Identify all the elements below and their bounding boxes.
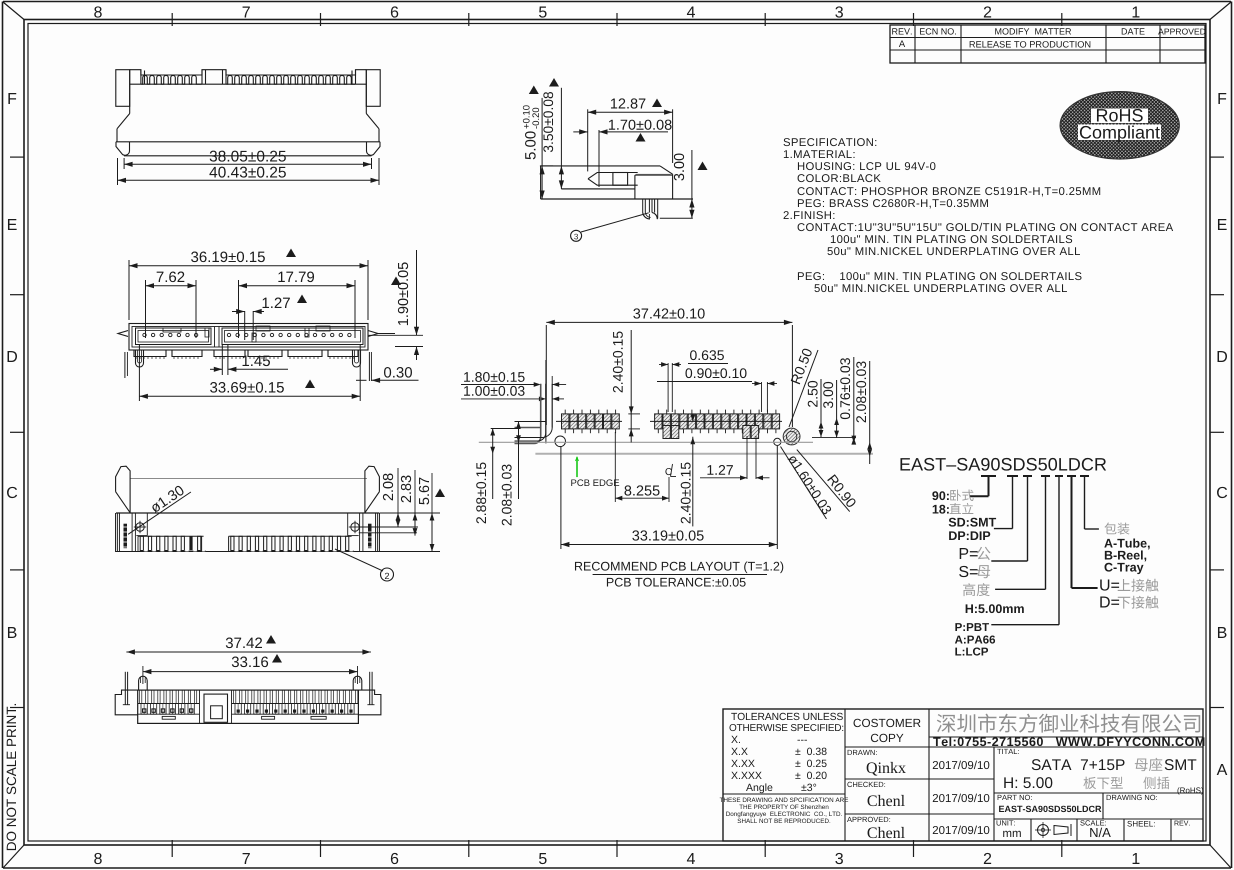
part no cell [998,795,1032,800]
rear view left end block stripes [117,513,119,552]
zone letters right [1218,93,1226,104]
projection symbol [1038,825,1049,836]
sheet outer edge [3,1,1231,3]
title block grid lines [844,709,846,841]
rear view body outline [116,513,380,552]
title cell [997,749,1019,754]
title block outer box [723,709,1203,841]
dimension 1.70±0.08 [598,130,600,187]
dimension 33.69±0.15 [138,344,140,401]
label DP DIP [949,531,990,540]
approved row [847,817,890,822]
front view comb base line [130,83,367,85]
label A-Tube [1104,538,1149,549]
label 90 horizontal [932,491,948,500]
dimension 5.00 +0.10/-0.20 [541,98,543,199]
front view bottom flange [116,141,380,143]
rear view right wing latch [365,466,380,513]
rev cell [1175,821,1190,826]
company tel line [933,737,1204,746]
top view teeth upper row left [140,690,142,703]
rear view right end block stripes [376,513,378,552]
label P male [960,548,978,559]
label 18 vertical [933,505,949,514]
top view outer legs [124,672,126,705]
rear view left peg target [146,513,148,536]
dimension 0.635 [667,363,669,412]
margin note DO NOT SCALE PRINT [7,704,17,850]
dimension 38.05±0.25 [123,158,125,169]
recommend pcb layout title [575,561,783,573]
rear view right peg target [347,513,349,536]
dimension 40.43±0.25 [117,158,119,185]
part number underline bars [981,475,996,477]
dimension 1.27 pcb [746,436,748,479]
rear view teeth gap [201,536,203,551]
dimension 1.27 pitch [244,311,246,340]
top view center key [204,694,228,722]
top view interior bands [138,703,200,705]
pcb pads staggered lower [663,426,670,439]
bottom view contact dots right [227,333,230,336]
rear view teeth right section [229,535,352,537]
drawn row [848,750,877,755]
rear view top lid face [130,478,367,480]
front view body outline [129,70,131,114]
zone numbers top [94,6,102,17]
pcb edge gray lines [479,441,813,443]
side view inner step [561,188,635,190]
label S female [959,566,977,577]
bottom view right cavity [222,328,363,345]
dimension 3.00 [691,199,693,218]
front view center key block [201,70,203,85]
dimension 0.30 [356,379,367,381]
revision table headers [892,28,911,34]
dimension 1.45 [221,344,223,375]
rear view left wing latch [116,466,131,513]
leader D [1071,476,1073,588]
label U upper contact [1100,579,1119,590]
side view body outline [541,165,660,167]
label A PA66 [955,635,995,643]
dimension 7.62 [145,280,147,338]
label height [963,583,990,596]
tolerances text [731,713,843,720]
scale cell [1080,820,1106,825]
leader L [1058,476,1060,625]
side view solder pins [642,199,644,213]
costomer copy cell [854,719,921,727]
label D lower contact [1100,596,1119,607]
front view left mounting ear [116,70,130,107]
top view teeth upper row right [234,690,236,703]
top view screw posts [139,676,148,690]
dimension 37.42 top view [126,651,371,653]
label packing [1104,523,1129,535]
leader R0.50 [789,350,818,427]
leader dim phi 1.30 [128,492,191,534]
pcb pads left group [562,414,569,429]
leader phi1.60 [781,447,827,520]
dimension 2.88±0.15 left [492,429,494,500]
checked row [847,782,885,787]
leader C [1084,476,1086,529]
leader circle 3 [581,213,649,232]
bottom view polarization marks [205,328,209,337]
bottom view side legs [124,352,126,378]
leader 90 [988,476,990,496]
dimension 12.87 [587,109,589,171]
bottom view left cavity [136,328,212,345]
bottom view contact dots left [143,333,146,336]
label P PBT [955,623,989,631]
pcb left vertical ext lines [545,360,547,443]
leader R0.90 [797,450,850,512]
bottom view right arrow mark [368,331,378,337]
zone letters left [8,93,16,104]
pcb right big hole hatched [783,428,800,445]
dimension 0.76±0.03 [853,357,855,443]
zone numbers bottom [94,853,102,864]
dimension 2.08±0.03 left [518,422,520,500]
dimension 2.50 [820,379,822,437]
company name [937,714,1200,733]
sheet corner bevels [3,2,24,20]
top view teeth lower blocks right [235,704,241,715]
zone ticks right [1210,156,1224,158]
front view top edge and comb teeth [130,70,367,75]
revision table grid [890,25,1205,63]
leader S [1027,476,1029,561]
label B-Reel [1105,550,1146,561]
dimension 2.40±0.15 lower [692,437,694,527]
bottom view outer body [129,324,368,351]
revision row A [899,40,905,47]
dimension 33.19±0.05 [560,446,562,549]
specification text block [784,138,877,146]
dimension 2.08±0.03 right [869,361,871,464]
pcb right hole [774,438,781,445]
bottom view cavity divider [214,327,216,348]
pcb left hole [555,436,566,447]
dimension 17.79 [238,280,240,338]
top view left bracket [115,690,138,715]
label C-Tray [1105,563,1144,574]
label L LCP [955,647,988,655]
dimension 1.00±0.03 [464,386,524,396]
dimension 37.42±0.10 pcb [545,325,547,425]
zone ticks left [10,156,24,158]
dimension 3.00 [836,380,838,438]
pcb edge label [571,479,619,486]
label H 5.00mm [966,604,1024,613]
part number EAST-SA90SDS50LDCR [900,458,1106,471]
bottom view solder tab row [134,350,166,357]
zone ticks bottom [171,840,173,857]
pcb edge green marker [576,457,578,477]
leader 50 [1045,476,1047,589]
top view teeth lower blocks left [141,704,147,715]
sheel cell [1127,821,1154,827]
centerline symbol [665,468,671,475]
top view right bracket [358,690,381,715]
dimension 1.90±0.05 [368,334,423,336]
bottom view retention pegs [136,350,144,367]
dimension 3.50±0.08 [560,88,562,189]
rear view teeth left section [137,536,139,551]
property note text [720,798,848,802]
rear view right dims 2.08 2.83 5.67 [379,512,440,514]
side view mating tongue [588,173,638,179]
pcb pads right group [655,414,662,429]
label SD SMT [949,518,996,527]
top view body outline [138,690,359,723]
dimension 8.255 [614,432,616,502]
dimension 0.90±0.10 [761,382,763,412]
top view bottom slots [162,716,175,719]
dimension 33.16 top view [142,666,144,684]
dimension 2.40±0.15 upper [630,330,632,442]
unit cell [997,820,1015,825]
pcb left mounting hook [515,384,541,444]
front view right mounting ear [366,70,380,107]
leader circle 2 [335,549,383,571]
zone ticks top [171,13,173,26]
dimension 1.80±0.15 [464,372,525,382]
bottom view left arrow mark [118,331,128,337]
dimension 36.19±0.15 [128,260,130,320]
leader SD [1012,476,1014,529]
